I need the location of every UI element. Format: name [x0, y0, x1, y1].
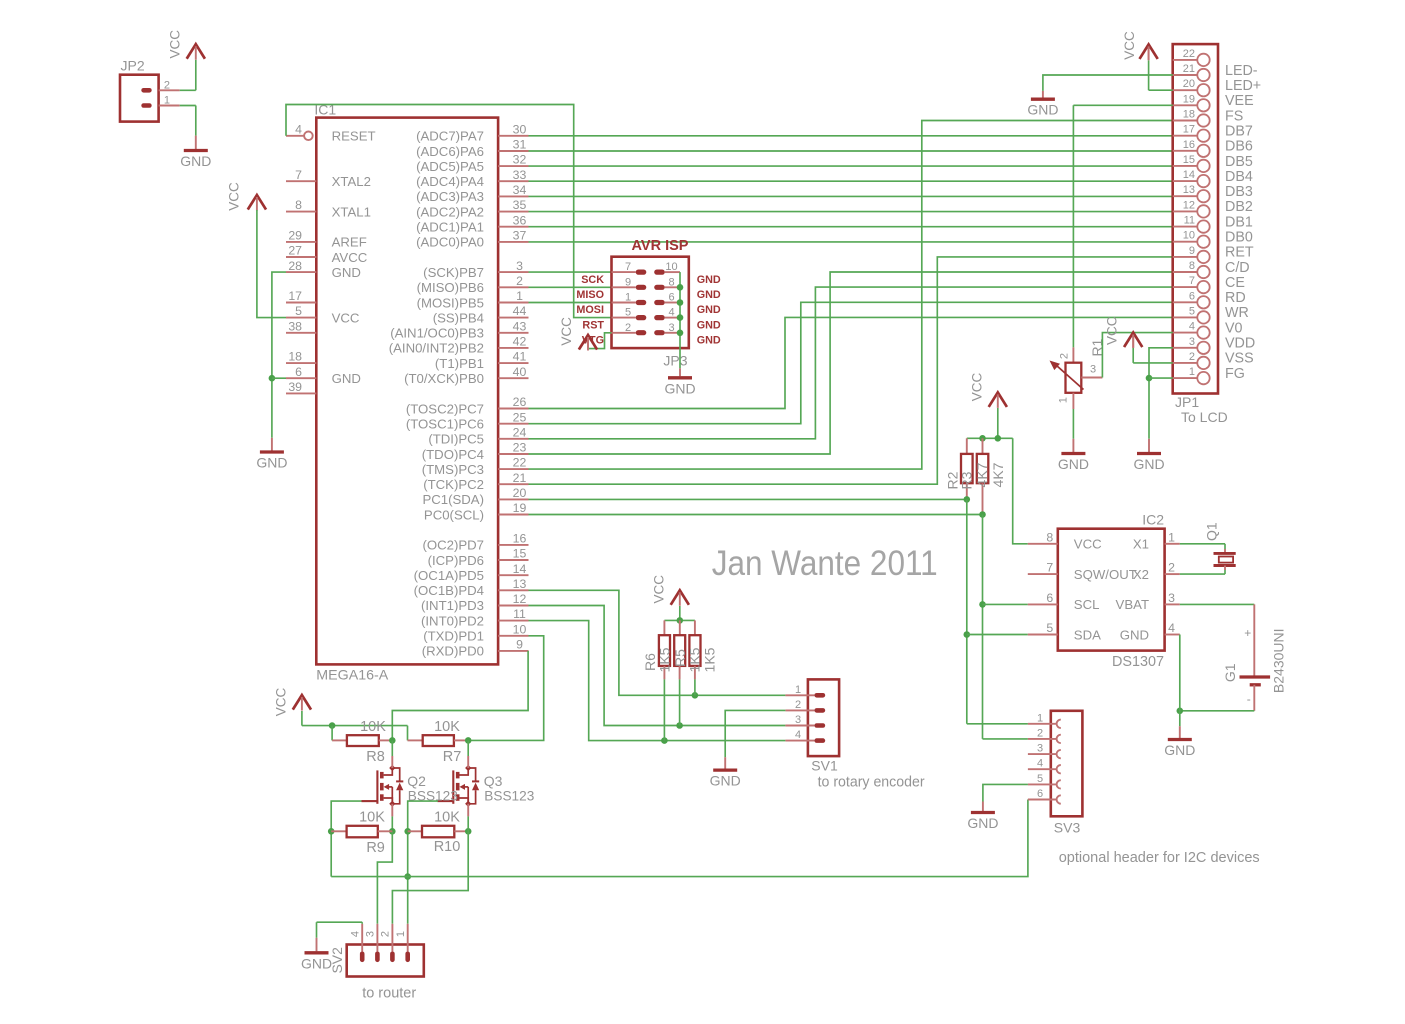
svg-text:(ADC5)PA5: (ADC5)PA5: [416, 159, 484, 174]
svg-text:6: 6: [668, 292, 674, 304]
svg-text:GND: GND: [710, 773, 741, 789]
svg-text:4: 4: [1189, 321, 1195, 333]
svg-text:VCC: VCC: [559, 317, 574, 346]
svg-text:DB3: DB3: [1225, 184, 1253, 200]
svg-text:SV3: SV3: [1054, 820, 1081, 836]
svg-text:RET: RET: [1225, 245, 1254, 261]
svg-text:(RXD)PD0: (RXD)PD0: [422, 644, 484, 659]
svg-text:34: 34: [513, 183, 527, 197]
svg-text:2: 2: [1189, 351, 1195, 363]
svg-text:12: 12: [513, 592, 527, 606]
svg-text:18: 18: [1183, 109, 1195, 121]
svg-text:GND: GND: [967, 815, 998, 831]
svg-text:11: 11: [1184, 215, 1195, 227]
svg-text:DB4: DB4: [1225, 169, 1253, 185]
svg-text:(ADC4)PA4: (ADC4)PA4: [416, 174, 484, 189]
svg-text:PC0(SCL): PC0(SCL): [424, 507, 484, 522]
svg-text:2: 2: [1037, 727, 1043, 739]
svg-text:6: 6: [1037, 788, 1043, 800]
svg-text:VCC: VCC: [168, 30, 183, 59]
svg-text:8: 8: [668, 276, 674, 288]
svg-text:29: 29: [288, 229, 302, 243]
svg-text:GND: GND: [697, 334, 721, 346]
svg-text:(AIN1/OC0)PB3: (AIN1/OC0)PB3: [390, 326, 484, 341]
svg-text:30: 30: [513, 122, 527, 136]
svg-text:4: 4: [1037, 758, 1043, 770]
svg-text:22: 22: [1183, 48, 1195, 60]
svg-text:VSS: VSS: [1225, 351, 1254, 367]
svg-text:(TMS)PC3: (TMS)PC3: [422, 462, 484, 477]
svg-text:43: 43: [513, 319, 527, 333]
svg-text:(TXD)PD1: (TXD)PD1: [423, 629, 484, 644]
svg-text:3: 3: [1189, 336, 1195, 348]
svg-text:(TDO)PC4: (TDO)PC4: [422, 447, 484, 462]
svg-text:9: 9: [1189, 245, 1195, 257]
svg-text:1K5: 1K5: [657, 647, 673, 672]
svg-text:GND: GND: [1164, 742, 1195, 758]
svg-text:6: 6: [295, 365, 302, 379]
svg-text:VCC: VCC: [274, 688, 289, 717]
svg-text:27: 27: [288, 244, 302, 258]
svg-text:(SCK)PB7: (SCK)PB7: [423, 265, 484, 280]
svg-text:Q1: Q1: [1204, 522, 1220, 541]
svg-text:9: 9: [516, 638, 523, 652]
svg-text:to router: to router: [362, 986, 416, 1002]
svg-text:SQW/OUT: SQW/OUT: [1074, 567, 1137, 582]
svg-text:SCK: SCK: [581, 274, 604, 286]
svg-text:3: 3: [1168, 591, 1175, 605]
svg-text:G1: G1: [1222, 663, 1238, 682]
svg-text:(ICP)PD6: (ICP)PD6: [428, 553, 484, 568]
svg-text:VEE: VEE: [1225, 93, 1254, 109]
svg-text:4: 4: [295, 122, 302, 136]
svg-text:R3: R3: [959, 471, 975, 489]
svg-text:6: 6: [1189, 290, 1195, 302]
svg-text:AVCC: AVCC: [332, 250, 368, 265]
svg-text:2: 2: [1168, 561, 1175, 575]
svg-text:16: 16: [1183, 139, 1195, 151]
svg-text:(ADC1)PA1: (ADC1)PA1: [416, 220, 484, 235]
svg-text:4K7: 4K7: [974, 462, 990, 487]
svg-text:GND: GND: [1058, 456, 1089, 472]
svg-text:41: 41: [513, 350, 527, 364]
svg-text:20: 20: [513, 486, 527, 500]
svg-text:R7: R7: [443, 749, 462, 765]
svg-text:17: 17: [288, 289, 302, 303]
svg-text:MISO: MISO: [576, 289, 604, 301]
svg-text:JP2: JP2: [121, 58, 145, 74]
svg-text:10: 10: [665, 261, 677, 273]
svg-text:2: 2: [795, 699, 801, 711]
svg-text:10K: 10K: [359, 810, 385, 826]
svg-text:SCL: SCL: [1074, 597, 1100, 612]
svg-text:BSS123: BSS123: [484, 788, 534, 804]
svg-text:(OC1B)PD4: (OC1B)PD4: [414, 583, 484, 598]
svg-text:2: 2: [1059, 353, 1071, 359]
svg-text:5: 5: [1046, 621, 1053, 635]
svg-text:8: 8: [295, 198, 302, 212]
svg-text:GND: GND: [1027, 102, 1058, 118]
svg-text:(TDI)PC5: (TDI)PC5: [428, 432, 484, 447]
svg-text:38: 38: [288, 319, 302, 333]
svg-text:R8: R8: [366, 749, 385, 765]
svg-text:(AIN0/INT2)PB2: (AIN0/INT2)PB2: [389, 341, 484, 356]
svg-text:VCC: VCC: [332, 310, 360, 325]
svg-text:GND: GND: [1120, 627, 1149, 642]
svg-text:3: 3: [795, 714, 801, 726]
svg-text:GND: GND: [332, 265, 361, 280]
svg-text:26: 26: [513, 395, 527, 409]
svg-text:VCC: VCC: [1105, 316, 1120, 345]
svg-text:1: 1: [1168, 530, 1175, 544]
svg-text:10K: 10K: [360, 719, 386, 735]
svg-text:5: 5: [1189, 305, 1195, 317]
svg-text:13: 13: [1183, 184, 1195, 196]
svg-text:(INT1)PD3: (INT1)PD3: [421, 598, 484, 613]
svg-text:2: 2: [380, 931, 392, 937]
svg-text:1: 1: [395, 931, 407, 937]
svg-text:(ADC6)PA6: (ADC6)PA6: [416, 144, 484, 159]
svg-text:18: 18: [288, 350, 302, 364]
svg-text:32: 32: [513, 153, 527, 167]
svg-text:IC2: IC2: [1142, 512, 1164, 528]
svg-text:7: 7: [1046, 561, 1053, 575]
svg-text:14: 14: [1183, 169, 1195, 181]
svg-text:MEGA16-A: MEGA16-A: [316, 667, 389, 683]
svg-text:10: 10: [513, 622, 527, 636]
svg-text:2: 2: [625, 322, 631, 334]
svg-text:X1: X1: [1133, 537, 1149, 552]
svg-text:VCC: VCC: [651, 575, 666, 604]
svg-text:35: 35: [513, 198, 527, 212]
svg-text:FG: FG: [1225, 366, 1245, 382]
svg-text:1: 1: [516, 289, 523, 303]
svg-text:GND: GND: [697, 304, 721, 316]
svg-text:5: 5: [295, 304, 302, 318]
svg-text:GND: GND: [256, 455, 287, 471]
svg-text:1: 1: [1058, 397, 1070, 403]
svg-text:1: 1: [1037, 712, 1043, 724]
svg-text:+: +: [1244, 626, 1251, 640]
svg-text:DB1: DB1: [1225, 214, 1253, 230]
svg-text:33: 33: [513, 168, 527, 182]
svg-text:39: 39: [288, 380, 302, 394]
svg-text:Jan Wante 2011: Jan Wante 2011: [712, 543, 938, 583]
svg-text:FS: FS: [1225, 108, 1243, 124]
svg-text:VDD: VDD: [1225, 336, 1255, 352]
svg-text:JP3: JP3: [663, 353, 687, 369]
svg-text:GND: GND: [1133, 456, 1164, 472]
svg-text:4: 4: [1168, 621, 1175, 635]
svg-text:6: 6: [1046, 591, 1053, 605]
svg-text:(ADC7)PA7: (ADC7)PA7: [416, 129, 484, 144]
svg-text:36: 36: [513, 213, 527, 227]
svg-text:AREF: AREF: [332, 235, 367, 250]
svg-text:21: 21: [1183, 63, 1195, 75]
svg-text:(T1)PB1: (T1)PB1: [435, 356, 484, 371]
svg-text:7: 7: [295, 168, 302, 182]
svg-text:14: 14: [513, 562, 527, 576]
svg-text:MOSI: MOSI: [576, 304, 604, 316]
svg-text:RESET: RESET: [332, 129, 376, 144]
svg-text:(SS)PB4: (SS)PB4: [433, 310, 484, 325]
svg-text:AVR ISP: AVR ISP: [632, 238, 689, 254]
svg-text:GND: GND: [664, 380, 695, 396]
svg-text:B2430UNI: B2430UNI: [1270, 629, 1286, 694]
svg-text:1: 1: [164, 95, 170, 107]
svg-text:GND: GND: [697, 274, 721, 286]
svg-text:optional header for I2C device: optional header for I2C devices: [1059, 849, 1260, 866]
svg-text:to rotary encoder: to rotary encoder: [818, 774, 925, 791]
svg-text:GND: GND: [180, 153, 211, 169]
svg-text:5: 5: [625, 307, 631, 319]
svg-text:RD: RD: [1225, 290, 1246, 306]
svg-text:PC1(SDA): PC1(SDA): [422, 492, 484, 507]
svg-text:23: 23: [513, 441, 527, 455]
svg-text:15: 15: [513, 547, 527, 561]
svg-text:(TCK)PC2: (TCK)PC2: [423, 477, 484, 492]
svg-text:R9: R9: [366, 840, 385, 856]
svg-text:DB5: DB5: [1225, 154, 1253, 170]
svg-text:1K5: 1K5: [702, 647, 718, 672]
svg-text:To LCD: To LCD: [1181, 409, 1228, 425]
svg-text:X2: X2: [1133, 567, 1149, 582]
svg-text:C/D: C/D: [1225, 260, 1250, 276]
svg-text:31: 31: [513, 138, 527, 152]
svg-text:37: 37: [513, 229, 527, 243]
svg-text:(MOSI)PB5: (MOSI)PB5: [417, 295, 484, 310]
svg-text:9: 9: [625, 276, 631, 288]
svg-text:5: 5: [1037, 773, 1043, 785]
svg-text:44: 44: [513, 304, 527, 318]
svg-text:GND: GND: [301, 955, 332, 971]
svg-text:1: 1: [1189, 366, 1195, 378]
svg-text:VCC: VCC: [969, 373, 984, 402]
svg-text:10K: 10K: [434, 719, 460, 735]
svg-text:DB6: DB6: [1225, 139, 1253, 155]
svg-text:19: 19: [1183, 93, 1195, 105]
svg-text:GND: GND: [332, 371, 361, 386]
svg-text:LED+: LED+: [1225, 78, 1261, 94]
svg-text:R10: R10: [434, 839, 461, 855]
svg-text:CE: CE: [1225, 275, 1245, 291]
svg-text:LED-: LED-: [1225, 63, 1258, 79]
svg-text:1: 1: [625, 292, 631, 304]
svg-text:10K: 10K: [434, 810, 460, 826]
svg-text:25: 25: [513, 410, 527, 424]
svg-text:2: 2: [164, 79, 170, 91]
svg-text:13: 13: [513, 577, 527, 591]
svg-text:11: 11: [513, 607, 526, 621]
svg-text:SV1: SV1: [811, 758, 838, 774]
svg-text:(OC1A)PD5: (OC1A)PD5: [414, 568, 484, 583]
svg-text:(T0/XCK)PB0: (T0/XCK)PB0: [404, 371, 484, 386]
svg-text:19: 19: [513, 501, 527, 515]
svg-text:1: 1: [795, 684, 801, 696]
svg-text:42: 42: [513, 335, 527, 349]
svg-text:3: 3: [1090, 364, 1096, 376]
svg-text:GND: GND: [697, 319, 721, 331]
svg-text:-: -: [1247, 692, 1251, 706]
svg-text:(ADC2)PA2: (ADC2)PA2: [416, 204, 484, 219]
svg-text:DS1307: DS1307: [1112, 654, 1164, 670]
svg-text:VBAT: VBAT: [1116, 597, 1149, 612]
svg-text:20: 20: [1183, 78, 1195, 90]
svg-text:16: 16: [513, 532, 527, 546]
svg-text:VCC: VCC: [226, 182, 241, 211]
svg-text:4K7: 4K7: [990, 462, 1006, 487]
svg-text:28: 28: [288, 259, 302, 273]
svg-text:21: 21: [513, 471, 527, 485]
svg-text:GND: GND: [697, 289, 721, 301]
svg-text:3: 3: [1037, 743, 1043, 755]
svg-text:4: 4: [668, 307, 674, 319]
svg-text:(ADC0)PA0: (ADC0)PA0: [416, 235, 484, 250]
svg-text:DB7: DB7: [1225, 124, 1253, 140]
svg-text:JP1: JP1: [1175, 394, 1199, 410]
svg-text:8: 8: [1046, 530, 1053, 544]
svg-text:(MISO)PB6: (MISO)PB6: [417, 280, 484, 295]
svg-text:7: 7: [1189, 275, 1195, 287]
svg-text:DB0: DB0: [1225, 230, 1253, 246]
svg-text:(ADC3)PA3: (ADC3)PA3: [416, 189, 484, 204]
svg-text:40: 40: [513, 365, 527, 379]
svg-text:22: 22: [513, 456, 527, 470]
svg-text:1K5: 1K5: [687, 647, 703, 672]
svg-text:(TOSC2)PC7: (TOSC2)PC7: [406, 401, 484, 416]
svg-text:(OC2)PD7: (OC2)PD7: [422, 538, 484, 553]
svg-text:3: 3: [365, 931, 377, 937]
svg-text:10: 10: [1183, 230, 1195, 242]
svg-text:8: 8: [1189, 260, 1195, 272]
svg-text:SDA: SDA: [1074, 627, 1101, 642]
svg-text:3: 3: [516, 259, 523, 273]
svg-text:V0: V0: [1225, 320, 1243, 336]
svg-text:4: 4: [795, 729, 801, 741]
svg-text:XTAL2: XTAL2: [332, 174, 371, 189]
svg-text:WR: WR: [1225, 305, 1249, 321]
svg-text:3: 3: [668, 322, 674, 334]
svg-text:XTAL1: XTAL1: [332, 204, 371, 219]
svg-text:15: 15: [1183, 154, 1195, 166]
svg-text:RST: RST: [582, 319, 604, 331]
svg-text:(INT0)PD2: (INT0)PD2: [421, 613, 484, 628]
svg-text:24: 24: [513, 425, 527, 439]
svg-text:12: 12: [1183, 199, 1195, 211]
svg-text:7: 7: [625, 261, 631, 273]
svg-text:DB2: DB2: [1225, 199, 1253, 215]
svg-text:VCC: VCC: [1122, 31, 1137, 60]
svg-text:4: 4: [350, 931, 362, 937]
svg-text:2: 2: [516, 274, 523, 288]
svg-text:VCC: VCC: [1074, 537, 1102, 552]
svg-text:(TOSC1)PC6: (TOSC1)PC6: [406, 417, 484, 432]
svg-text:17: 17: [1183, 124, 1195, 136]
